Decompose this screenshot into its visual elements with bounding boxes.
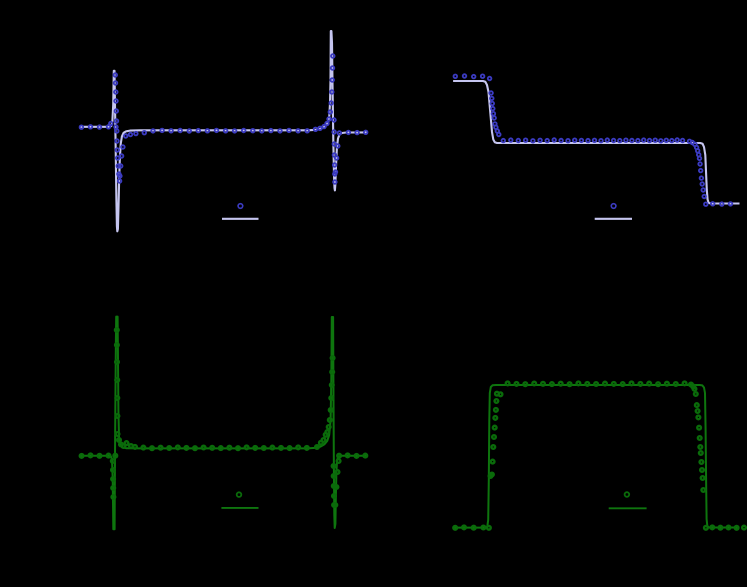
bottom-right legend data marker (625, 492, 630, 497)
bottom-right best-fit line (rectangle pulse, green) (452, 385, 739, 528)
top-right data markers (blue open circles) (454, 74, 733, 206)
top-right best-fit line (double step down, lavender) (453, 81, 739, 204)
top-right legend fit line (595, 218, 632, 220)
top-left legend data marker (238, 204, 243, 209)
bottom-right data markers (green open circles) (453, 382, 746, 530)
bottom-left legend fit line (221, 507, 258, 509)
top-left data markers (blue open circles) (80, 54, 368, 184)
bottom-left data markers (green open circles) (80, 328, 367, 507)
top-left legend fit line (222, 218, 259, 220)
bottom-right legend fit line (609, 507, 647, 509)
bottom-left best-fit line (second-derivative spikes, green) (79, 317, 366, 530)
bottom-left legend data marker (237, 492, 242, 497)
top-left best-fit line (dispersion derivative curve, lavender) (79, 31, 366, 231)
top-right legend data marker (611, 204, 616, 209)
